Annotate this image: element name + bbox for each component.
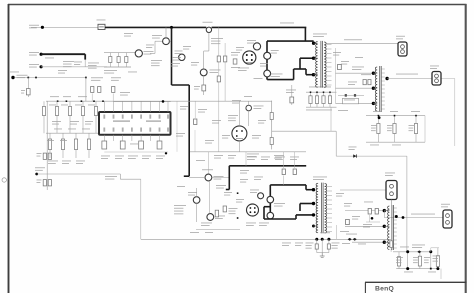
wire left drop [119, 174, 121, 179]
wire left block lower rail [46, 132, 98, 134]
thick bus wire jog [172, 84, 190, 86]
L201 pin stub 8 [381, 96, 385, 98]
thick wire AC-N [41, 53, 85, 55]
resistor R129 [88, 133, 90, 158]
transformer T101 primary winding [316, 42, 318, 88]
label R221 column [174, 204, 186, 207]
label grid i [76, 160, 85, 163]
node L201 b [372, 87, 375, 90]
node L202 c [383, 241, 386, 244]
label CN204 [441, 203, 450, 206]
label PC102 [228, 114, 238, 117]
L201 pin stub 6 [381, 88, 385, 90]
U101 bottom pin wire 7 [159, 135, 161, 141]
label t101r e [355, 56, 363, 59]
L201 pin stub 7 [381, 92, 385, 94]
junction output b [429, 250, 432, 253]
wire tick above title [440, 269, 442, 279]
node AC-L junction [41, 26, 44, 29]
label s2l b [177, 185, 185, 188]
wire T102 bus drop [336, 225, 338, 239]
label top b [146, 44, 154, 47]
jumper J201 pin b [354, 94, 356, 96]
label t101r b [341, 60, 349, 63]
label LF101 [144, 50, 154, 53]
transistor Q102 upper [264, 52, 271, 59]
label snubber row2 [309, 86, 331, 89]
label D201 [352, 66, 364, 69]
label TH201 right [214, 175, 224, 178]
junction output c [406, 267, 409, 270]
label bd c [254, 77, 263, 80]
label below IC f [130, 143, 138, 146]
label t102r c [352, 215, 360, 218]
node AC-N junction [40, 53, 43, 56]
wire mid col c [194, 102, 196, 119]
wire rect 5V c [336, 102, 374, 104]
transistor Q202 [207, 214, 214, 221]
thick wire T101 pin2 link [300, 57, 314, 59]
wire vertical C105 branch [218, 27, 220, 151]
wire cap bank bottom rail [366, 141, 425, 143]
label CN202 [430, 65, 439, 68]
label stage2 rail b [274, 154, 284, 157]
label stage2 r3 [275, 156, 285, 159]
node +5V out [385, 77, 388, 80]
U101 top pin wire 8 [167, 101, 169, 112]
capacitor C119 [329, 92, 331, 107]
wire cap bank top rail [366, 115, 425, 117]
label stage2 r5 [240, 169, 249, 172]
junction output e [430, 268, 432, 270]
resistor R121 [43, 101, 45, 133]
junction standby 2 [35, 77, 37, 79]
L201 pin stub 3 [381, 76, 385, 78]
thick bus wire AC to bridge [212, 26, 307, 28]
label J201 [344, 99, 355, 102]
label t101r a [333, 51, 341, 54]
thick wire T102 pin3 link [296, 214, 314, 216]
photocoupler PC101 [200, 69, 207, 76]
wire AC-N to filter [84, 60, 86, 67]
wire output top rail [393, 251, 431, 253]
wire output bottom rail [396, 268, 438, 270]
label below IC a [101, 155, 110, 158]
connector CN202 [432, 72, 441, 86]
label ac c [74, 61, 82, 64]
resistor R127 [62, 133, 64, 158]
L202 pin stub 2 [394, 211, 397, 213]
bridge rectifier BD101 [243, 51, 256, 64]
label bottom left cluster [216, 184, 226, 187]
junction standby 1 [27, 77, 29, 79]
transformer T102 secondary winding [325, 184, 327, 233]
label T101 [313, 33, 327, 36]
L202 pin stub 1 [394, 207, 397, 209]
label t102r b [344, 202, 352, 205]
wire T102 to L202 c [352, 241, 384, 243]
transistor Q204 [258, 193, 264, 199]
capacitor C133 [139, 141, 144, 149]
thick wire stage2 loop a [264, 206, 270, 208]
junction standby 3 [85, 77, 87, 79]
node T101 pin3 [312, 73, 315, 76]
wire choke link up [150, 52, 155, 54]
junction below IC [165, 152, 167, 154]
label s2l e [190, 231, 199, 234]
wire LF102 to bus [169, 40, 171, 42]
label grid a [50, 95, 59, 98]
junction snubber 1 [310, 91, 312, 93]
wire cap bottom link [317, 252, 329, 254]
label C204 [387, 124, 393, 127]
transformer T101 secondary winding [324, 42, 326, 87]
U101 bottom pin wire 6 [149, 135, 151, 141]
label grid c [78, 95, 87, 98]
label grid g [48, 160, 58, 163]
U101 bottom pin wire 5 [140, 135, 142, 141]
thick wire +B rail to transformer [267, 40, 314, 42]
wire snubber top rail [306, 91, 337, 93]
label R201 R202 [361, 73, 371, 76]
capacitor C231 [398, 252, 400, 269]
label C235 [433, 255, 440, 258]
inductor L202 winding [388, 206, 390, 250]
junction output d [436, 267, 439, 270]
label Q206 [274, 202, 285, 205]
border frame left [8, 4, 10, 293]
resistor R105 [91, 87, 94, 93]
L202 pin stub 4 [394, 219, 397, 221]
connector CN201 [398, 42, 407, 56]
label cluster filter mid [88, 62, 99, 65]
diode D205 [353, 154, 356, 157]
wire aux feedback drop [335, 131, 337, 156]
T101 secondary pin stub 2 [327, 48, 332, 50]
photo-triac PC102 [232, 126, 247, 141]
thick wire T101 pin3 drop [305, 69, 307, 75]
node earth junction [40, 65, 43, 68]
T102 secondary pin stub 10 [327, 226, 332, 228]
label BD101 [238, 67, 249, 70]
thick wire source loop up [293, 69, 295, 80]
label cluster mid [231, 51, 240, 54]
wire LF102 up [165, 27, 167, 37]
resistor R126 [49, 133, 51, 158]
label q upper [271, 49, 279, 52]
label T102 [313, 176, 327, 179]
net label +B voltage [280, 22, 294, 25]
L201 pin stub 9 [381, 100, 385, 102]
label R132 [37, 179, 42, 182]
thermistor TH201 [205, 174, 212, 181]
wire AC-L input [31, 26, 98, 28]
wire filter top rail [104, 52, 135, 54]
resistor R108 [202, 85, 206, 91]
label TH101 [203, 21, 213, 24]
T101 secondary pin stub 3 [327, 53, 332, 55]
label top a [124, 32, 133, 35]
T101 secondary pin stub 6 [327, 66, 332, 68]
label ac a [45, 57, 54, 60]
junction pin on VCC rail 4 [93, 100, 95, 102]
label s2l d [236, 198, 244, 201]
inductor L201 core [379, 66, 381, 112]
wire Q201 lead down [196, 203, 198, 222]
U101 bottom pin wire 4 [131, 135, 133, 141]
U101 top pin wire 7 [159, 101, 161, 112]
label cluster over IC b [111, 76, 121, 79]
diode D202 [338, 64, 342, 69]
wire C234 drop [430, 252, 432, 269]
L202 pin stub 6 [394, 227, 397, 229]
L202 pin stub 8 [394, 235, 397, 237]
node T102 pin1 [312, 188, 315, 191]
label Q201 [188, 191, 197, 194]
junction bottom rail 3 [327, 238, 330, 241]
label t101r d [338, 109, 348, 112]
label mid b [198, 108, 207, 111]
T102 secondary pin stub 1 [327, 186, 332, 188]
thick wire stage2 vertical [228, 166, 230, 190]
label D205 [349, 146, 357, 149]
thick bus wire vertical to bottom stage [188, 85, 190, 176]
wire output top right [430, 248, 432, 252]
label top f [191, 61, 199, 64]
label C216 [306, 242, 314, 245]
T101 secondary pin stub 8 [327, 75, 332, 77]
wire R231 down [390, 249, 392, 252]
resistor R128 [75, 133, 77, 158]
label F101 [97, 19, 106, 22]
L201 pin stub 5 [381, 84, 385, 86]
U101 top pin wire 3 [122, 101, 124, 112]
resistor R101 [118, 53, 120, 67]
wire to CN203 [340, 189, 386, 191]
label cluster top mid [151, 59, 162, 62]
L202 pin stub 5 [394, 223, 397, 225]
wire +5V to CN202 [387, 78, 432, 80]
wire stage2 vert a [283, 152, 285, 168]
connector CN204 [443, 210, 452, 228]
wire L202 b stub [384, 225, 389, 227]
thick wire source loop right [294, 68, 306, 70]
L201 pin stub 4 [381, 80, 385, 82]
transistor Q101 [253, 43, 260, 50]
wire aux feedback long [336, 155, 407, 157]
label bottom cluster [201, 222, 212, 225]
T102 secondary pin stub 9 [327, 222, 332, 224]
T102 secondary pin stub 8 [327, 217, 332, 219]
thick wire switch drain rail [266, 41, 268, 80]
capacitor C235 [437, 248, 439, 269]
IC U101 box [99, 112, 171, 135]
thick bus wire branch down [171, 27, 173, 85]
label mid g [244, 95, 252, 98]
label ac b [58, 69, 67, 72]
resistor R132a [43, 180, 46, 186]
label stage2 r2 [261, 156, 270, 159]
diode D211 [348, 238, 352, 241]
L202 pin stub 3 [394, 215, 397, 217]
resistor R122 [56, 101, 58, 133]
wire TH201 to bus [189, 177, 205, 179]
label mid h [258, 119, 266, 122]
label PC103 [175, 50, 183, 53]
connector CN203 [386, 181, 397, 200]
label TH201 [202, 168, 213, 171]
capacitor C118 [323, 92, 325, 107]
transistor Q201 [193, 197, 200, 204]
fuse F101 element [99, 26, 104, 28]
label stage2 r4 [290, 156, 299, 159]
node T101 pin2 [312, 57, 315, 60]
T101 secondary pin stub 1 [327, 44, 332, 46]
label C105 R109 [211, 37, 223, 40]
label R108 [194, 85, 200, 88]
capacitor C205 [415, 116, 417, 143]
junction snubber 4 [329, 91, 331, 93]
label bd a [236, 46, 244, 49]
label lg e [54, 128, 62, 131]
L201 pin stub 2 [381, 72, 385, 74]
label out c [404, 271, 413, 274]
U101 pin 3 ticks [122, 115, 124, 119]
U101 bottom pin wire 2 [113, 135, 115, 141]
wire stage2 vert a2 [283, 176, 285, 185]
label under big circle b [259, 222, 269, 225]
label bank e [392, 144, 401, 147]
label s2l f [205, 231, 213, 234]
label mid e [205, 139, 214, 142]
T101 secondary pin stub 9 [327, 80, 332, 82]
label stage2 r7 [254, 176, 263, 179]
wire D104 up [248, 101, 250, 105]
T102 secondary pin stub 11 [327, 231, 332, 233]
PC102 pins [236, 130, 238, 132]
wire L202 c stub [384, 241, 389, 243]
junction sec a [371, 217, 374, 220]
thick wire +B drop [304, 27, 306, 41]
wire aux feedback vertical [406, 156, 408, 252]
wire PC102 top [238, 101, 240, 126]
U101 bottom pin wire 3 [122, 135, 124, 141]
L202 pin stub 7 [394, 231, 397, 233]
wire mid column a [176, 102, 178, 152]
choke LF101 left [135, 50, 142, 57]
thick wire T102 pin2 drop [299, 204, 301, 212]
label grid h [62, 160, 71, 163]
label sec c [363, 223, 372, 226]
wire standby drop [85, 78, 87, 102]
wire R105 drop [91, 94, 93, 102]
node L202 b [383, 225, 386, 228]
wire T102 to L202 a [345, 210, 384, 212]
label D104 [254, 105, 264, 108]
label stage2 r6 [240, 178, 248, 181]
junction output a [406, 250, 409, 253]
thick wire stage2 loop d [295, 215, 297, 219]
label cn203 parts [364, 201, 373, 204]
wire D104 down [248, 111, 250, 126]
wire R failsafe drop [27, 78, 29, 98]
wire vertical R109 branch [224, 43, 226, 101]
capacitor C203 [377, 116, 379, 143]
wire mid column b [194, 130, 196, 152]
label lg d [88, 104, 95, 107]
L202 pin stub 11 [394, 247, 397, 249]
wire feedback box right edge [271, 101, 273, 150]
U101 internal label [113, 121, 130, 122]
U101 top pin wire 6 [149, 101, 151, 112]
L202 pin stub 10 [394, 243, 397, 245]
node left rail junction [35, 173, 38, 176]
label LF102 [152, 34, 162, 37]
label Q202 [215, 215, 225, 218]
wire stage2 vert link [245, 152, 247, 166]
wire VCC rail [46, 100, 272, 102]
U101 pin 2 ticks [113, 115, 115, 119]
wire from TH101 down [208, 33, 210, 52]
resistor R109 [224, 56, 227, 62]
thick wire T102 pin2 link [300, 203, 314, 205]
thick wire stage2 drain rail [269, 185, 271, 219]
label lg b [61, 104, 68, 107]
label node VAC [35, 166, 45, 169]
thick wire T102 pin1 link [306, 189, 314, 191]
label out d [428, 271, 436, 274]
wire snubber bottom rail [306, 106, 337, 108]
label cluster filter left [63, 60, 74, 63]
junction pin on VCC rail 3 [81, 100, 83, 102]
label mid left [105, 175, 117, 178]
label above rail mid [120, 91, 130, 94]
transistor Q205 upper [267, 196, 274, 203]
label standby a [10, 71, 19, 74]
net label +5VSB [396, 73, 418, 76]
L201 pin stub 10 [381, 104, 385, 106]
wire L201 a stub [373, 72, 377, 74]
label top e [183, 45, 191, 48]
label t102r d [340, 230, 349, 233]
label mid c [212, 119, 221, 122]
U101 pin 4 ticks [131, 115, 133, 119]
capacitor C107 [194, 119, 197, 125]
label under big circle [246, 222, 256, 225]
node cap bank gnd [378, 116, 381, 119]
wire choke vertical [154, 41, 156, 53]
label grid f [85, 120, 93, 123]
net label to CN201 [344, 38, 362, 41]
wire PC101 down lead [203, 76, 205, 95]
junction bottom rail 2 [321, 238, 324, 241]
T102 secondary pin stub 5 [327, 204, 332, 206]
capacitor CX102 [125, 53, 127, 67]
label out a [400, 246, 409, 249]
transistor Q103 lower [264, 70, 271, 77]
wire cap drop 3 [328, 239, 330, 252]
Q203 pins [250, 207, 252, 209]
label C233 [413, 256, 419, 259]
wire lower AC rail [41, 66, 107, 68]
wire standby [15, 77, 86, 79]
junction cap bank 3 [415, 115, 417, 117]
thick wire stage2 +B rail [229, 165, 306, 167]
resistor R106 [98, 87, 101, 93]
thick wire T101 pin3 link [306, 74, 314, 76]
resistor R252 [375, 209, 378, 215]
label Q101 [247, 39, 256, 42]
